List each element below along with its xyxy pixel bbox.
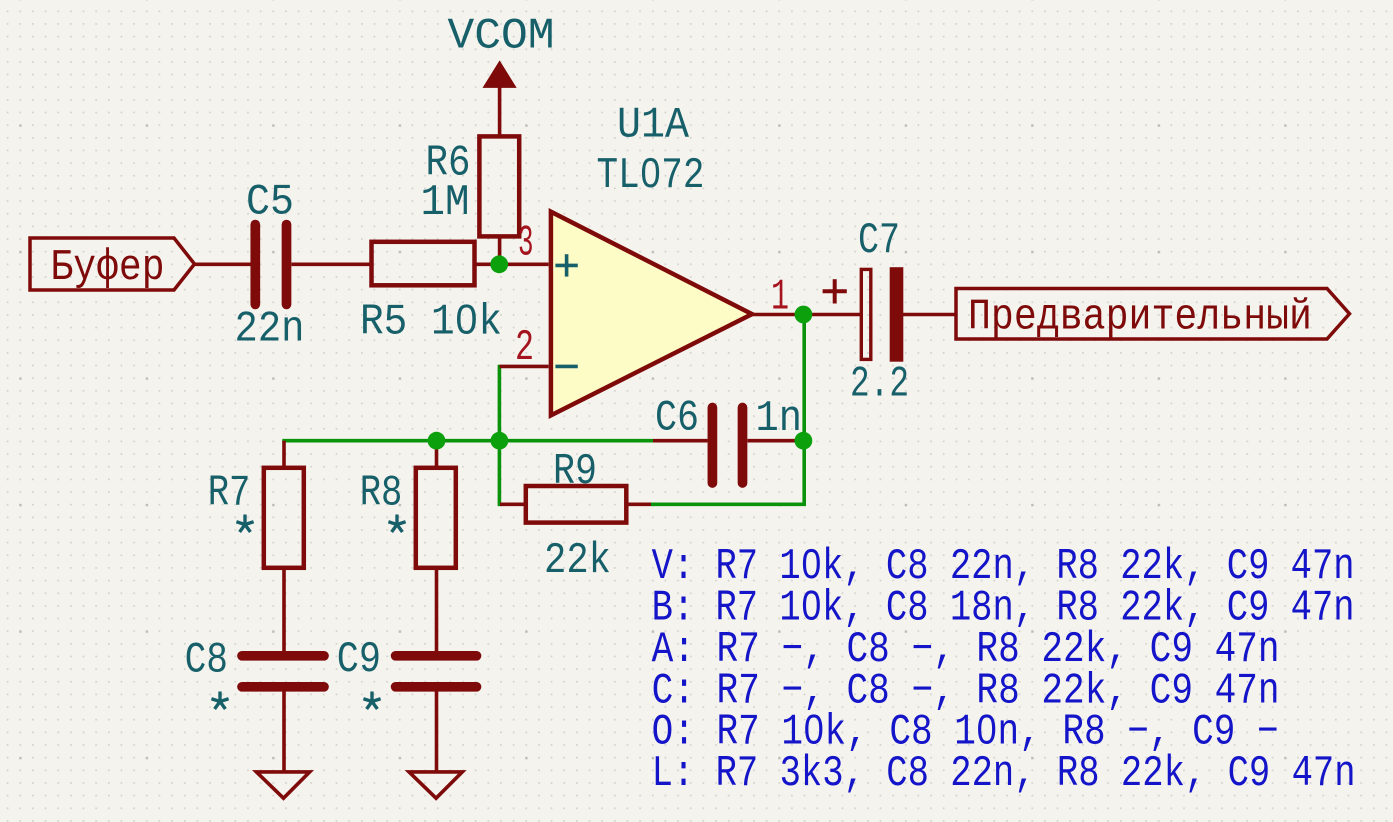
svg-text:C9: C9 [337, 636, 381, 685]
svg-text:Предварительный: Предварительный [968, 294, 1312, 343]
svg-text:C8: C8 [185, 637, 228, 686]
svg-text:L: R7 3k3, C8 22n, R8 22k, C9: L: R7 3k3, C8 22n, R8 22k, C9 47n [652, 750, 1356, 799]
svg-text:2.2: 2.2 [850, 361, 909, 410]
svg-text:2: 2 [515, 324, 534, 373]
svg-text:C6: C6 [655, 395, 699, 444]
svg-text:C5: C5 [246, 179, 294, 228]
svg-text:R7: R7 [208, 470, 251, 519]
svg-text:1: 1 [771, 274, 789, 323]
svg-text:R9: R9 [553, 448, 597, 497]
svg-text:R8: R8 [360, 470, 403, 519]
svg-text:U1A: U1A [617, 102, 690, 151]
svg-text:22k: 22k [544, 537, 611, 586]
svg-text:C7: C7 [858, 217, 900, 266]
svg-text:Буфер: Буфер [51, 244, 165, 293]
svg-text:VCOM: VCOM [448, 13, 555, 62]
svg-text:1M: 1M [421, 179, 470, 228]
svg-text:1n: 1n [756, 395, 803, 444]
svg-text:R5 10k: R5 10k [360, 299, 502, 348]
svg-text:22n: 22n [235, 306, 305, 355]
svg-text:3: 3 [518, 220, 534, 269]
